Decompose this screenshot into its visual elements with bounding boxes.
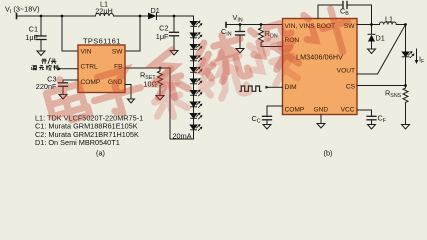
svg-text:VOUT: VOUT [337, 68, 355, 75]
ground (D1 b) [368, 49, 376, 54]
IF current arrow [416, 49, 418, 61]
svg-text:(b): (b) [324, 149, 333, 158]
pin labels TPS61161 [81, 49, 124, 87]
svg-text:VIN: VIN [81, 49, 92, 56]
wire rail L1 to D1 [114, 15, 149, 17]
wire FB to LED return [125, 68, 194, 139]
inductor L1 (b) [380, 22, 397, 25]
pin labels LM3406 [285, 23, 356, 114]
wire CTRL input [62, 68, 78, 70]
watermark char she [247, 20, 300, 74]
wire CB to SW node [348, 5, 372, 25]
wire input rail (a) [17, 15, 96, 17]
wire LED node down [405, 25, 407, 53]
wire VOUT diagonal [357, 25, 406, 75]
parts list [35, 113, 143, 147]
wire CS [357, 85, 406, 87]
ground (C1) [37, 51, 45, 56]
watermark char xi 2 [146, 67, 189, 121]
watermark char tong 2 [193, 48, 249, 105]
resistor RSNS [403, 88, 408, 125]
junction dots (a) [40, 15, 176, 70]
ground (C2) [170, 51, 178, 56]
wire VIN drop [62, 16, 78, 51]
wire LED to CS node [405, 57, 407, 88]
watermark char dian [44, 74, 90, 124]
watermark char xi [147, 48, 190, 102]
svg-text:COMP: COMP [285, 106, 305, 113]
svg-text:VCC: VCC [341, 106, 355, 113]
wire COMP to C3 [63, 80, 78, 83]
input terminal VI [16, 14, 18, 19]
texts circuit (b) [221, 7, 425, 158]
wire LED string [193, 16, 195, 139]
wire SW [357, 24, 380, 26]
wire COMP to CC [267, 106, 283, 116]
wire GND stub (a) [125, 85, 131, 100]
inductor L1 (a) [96, 13, 114, 16]
wire BOOT to CB [318, 5, 343, 19]
capacitor CC [263, 115, 272, 117]
watermark char she 2 [246, 35, 299, 89]
ground (C3) [59, 95, 67, 100]
capacitor CIN [239, 25, 241, 32]
wire D1 to LED string corner [157, 16, 194, 22]
IC U2 LM3406/06HV [283, 19, 358, 115]
ground (CIN) [236, 49, 244, 54]
capacitor C3 [59, 82, 68, 84]
diode D1 (b) [371, 25, 373, 35]
IC U1 TPS61161 [78, 45, 125, 93]
resistor RON [259, 25, 264, 47]
watermark char zi [88, 67, 146, 121]
svg-text:CS: CS [346, 83, 356, 90]
ground (RSET) [156, 96, 164, 101]
resistor RSET [158, 68, 163, 89]
ground (CF) [368, 125, 376, 130]
svg-text:1μF: 1μF [25, 33, 38, 42]
wire DIM input arrow [269, 86, 283, 88]
ground (RSNS) [402, 125, 410, 130]
ground (CC) [263, 125, 271, 130]
wire L1 to LED node [396, 24, 405, 26]
svg-text:DIM: DIM [285, 84, 297, 91]
capacitor CB [342, 2, 344, 9]
watermark second row (darker partial copy) [146, 35, 299, 121]
LED string D2-D11 [190, 21, 202, 131]
wire RON to pin [261, 46, 283, 48]
svg-text:SW: SW [112, 49, 123, 56]
svg-text:LM3406/06HV: LM3406/06HV [296, 53, 343, 62]
svg-text:22μH: 22μH [95, 7, 113, 16]
label 开/关 (on/off) drawn as vectors [32, 58, 58, 71]
svg-text:TPS61161: TPS61161 [83, 37, 121, 46]
svg-text:L1: L1 [385, 15, 393, 24]
watermark 电子系统设计 (drawn as vector strokes) [44, 4, 356, 124]
junction dots (b) [239, 23, 407, 87]
diode D1 (a) [148, 13, 157, 20]
wire input rail (b) [226, 24, 283, 26]
wire RSET to ground [159, 89, 161, 96]
svg-text:1μF: 1μF [156, 32, 169, 41]
svg-text:(a): (a) [96, 149, 105, 158]
wire VCC to CF [357, 110, 372, 116]
capacitor CF [367, 115, 376, 117]
watermark char tong [194, 31, 250, 88]
svg-text:CTRL: CTRL [81, 63, 99, 70]
svg-text:20mA: 20mA [173, 131, 192, 140]
label 调光控制 (dimming control) drawn as vectors [32, 65, 37, 70]
svg-text:D1: D1 [376, 34, 385, 43]
svg-text:D1: D1 [151, 6, 160, 15]
input terminal VIN (b) [225, 23, 227, 28]
square wave DIM input [240, 86, 261, 91]
watermark char ji [300, 4, 355, 60]
texts circuit (a) [5, 0, 192, 158]
LED (b) [402, 52, 409, 57]
ground (IC b GND) [317, 124, 325, 129]
ground (IC a GND) [128, 99, 135, 103]
wire GND stub (b) [320, 115, 322, 124]
capacitor C2 [173, 16, 175, 32]
svg-text:D1: On Semi MBR0540T1: D1: On Semi MBR0540T1 [35, 138, 120, 147]
wire SW riser [125, 16, 140, 51]
capacitor C1 [40, 16, 42, 36]
svg-text:GND: GND [314, 106, 329, 113]
